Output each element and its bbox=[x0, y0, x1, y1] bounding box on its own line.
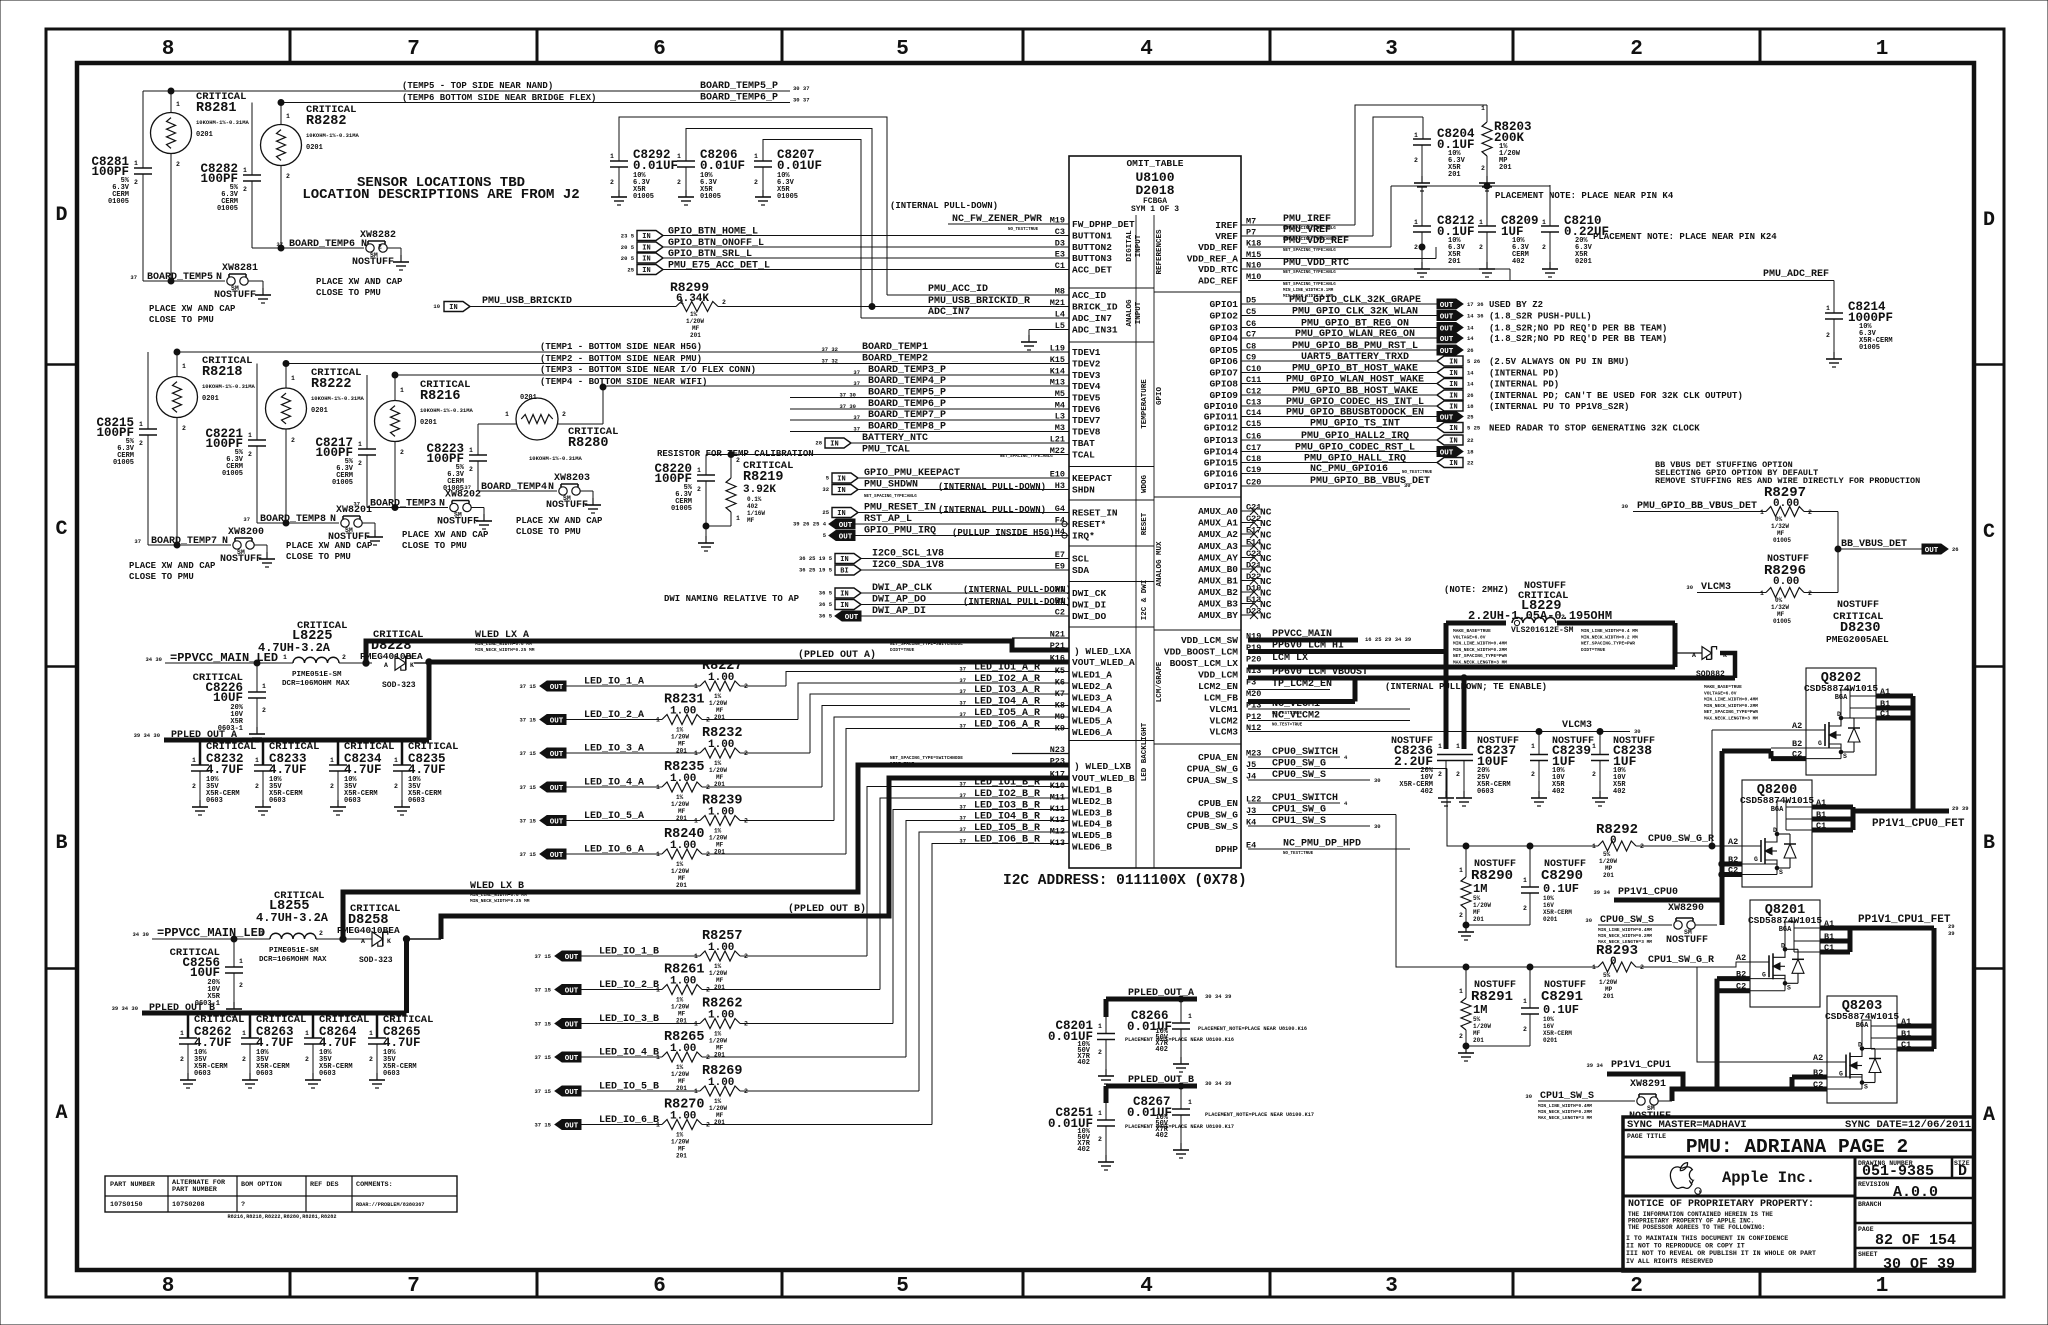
svg-text:OUT: OUT bbox=[550, 785, 564, 793]
ground for C8206 bbox=[678, 190, 694, 205]
wire PMU_GPIO_BT_HOST_WAKE bbox=[1241, 372, 1437, 374]
svg-text:39 34 30: 39 34 30 bbox=[112, 1005, 138, 1012]
svg-text:LED_IO6_A_R: LED_IO6_A_R bbox=[974, 720, 1040, 731]
svg-text:PIME051E-SM: PIME051E-SM bbox=[269, 947, 319, 955]
svg-text:) WLED_LXA: ) WLED_LXA bbox=[1074, 646, 1131, 657]
svg-text:1: 1 bbox=[697, 467, 701, 474]
svg-text:TDEV5: TDEV5 bbox=[1072, 393, 1101, 404]
svg-text:DWI_AP_CLK: DWI_AP_CLK bbox=[872, 583, 932, 594]
svg-text:2.2UH-1.05A-0.195OHM: 2.2UH-1.05A-0.195OHM bbox=[1468, 609, 1612, 623]
svg-text:OUT: OUT bbox=[1440, 449, 1454, 457]
svg-text:4.7UH-3.2A: 4.7UH-3.2A bbox=[256, 911, 329, 925]
bus LCM_FB M20 riser from VBOOST bbox=[1353, 678, 1358, 702]
wire LED_IO_3_B to IC bbox=[740, 1023, 893, 1025]
svg-text:XW8200: XW8200 bbox=[228, 527, 264, 538]
wire diode D8228 cathode junction bbox=[414, 662, 429, 664]
svg-text:TDEV7: TDEV7 bbox=[1072, 415, 1101, 426]
svg-text:1M: 1M bbox=[1473, 882, 1487, 896]
svg-text:DPHP: DPHP bbox=[1215, 844, 1238, 855]
svg-text:NET_SPACING_TYPE=SWITCHNODE: NET_SPACING_TYPE=SWITCHNODE bbox=[890, 755, 963, 761]
svg-text:A: A bbox=[1692, 652, 1696, 659]
svg-text:XW8290: XW8290 bbox=[1668, 903, 1704, 914]
svg-text:30: 30 bbox=[1404, 482, 1411, 489]
svg-text:LED_IO_4_B: LED_IO_4_B bbox=[599, 1048, 659, 1059]
svg-text:39: 39 bbox=[1948, 930, 1955, 937]
wire riser LED_IO_5_B bbox=[919, 832, 1069, 1091]
title block outline bbox=[1623, 1117, 1974, 1271]
svg-text:(TEMP6 BOTTOM SIDE NEAR BRIDGE: (TEMP6 BOTTOM SIDE NEAR BRIDGE FLEX) bbox=[402, 93, 596, 103]
svg-text:NC: NC bbox=[1260, 518, 1272, 529]
svg-text:4.7UF: 4.7UF bbox=[408, 763, 446, 777]
jumper XW8203 bbox=[559, 484, 580, 495]
svg-text:PP6V0 LCM VBOOST: PP6V0 LCM VBOOST bbox=[1272, 667, 1368, 678]
svg-text:PART NUMBER: PART NUMBER bbox=[172, 1186, 218, 1194]
svg-text:IN: IN bbox=[642, 233, 650, 241]
svg-text:WLED5_B: WLED5_B bbox=[1072, 830, 1112, 841]
svg-text:MF: MF bbox=[716, 842, 724, 849]
ground for C8220 bbox=[698, 536, 714, 551]
svg-text:37: 37 bbox=[276, 241, 283, 248]
svg-text:1%: 1% bbox=[714, 760, 722, 767]
svg-text:37: 37 bbox=[959, 677, 966, 684]
svg-text:R8280: R8280 bbox=[568, 436, 609, 451]
bus PP6V0_LCM_VBOOST bbox=[1248, 676, 1735, 681]
capacitor C8212 bbox=[1413, 226, 1431, 262]
svg-text:GPIO4: GPIO4 bbox=[1209, 333, 1238, 344]
svg-text:LED_IO1_A_R: LED_IO1_A_R bbox=[974, 663, 1040, 674]
svg-text:NC: NC bbox=[1260, 576, 1272, 587]
svg-text:DIGITAL: DIGITAL bbox=[1126, 230, 1134, 262]
svg-text:ACC_ID: ACC_ID bbox=[1072, 290, 1107, 301]
svg-text:1: 1 bbox=[1188, 1099, 1192, 1106]
svg-text:PMU_E75_ACC_DET_L: PMU_E75_ACC_DET_L bbox=[668, 261, 770, 272]
svg-text:MF: MF bbox=[1777, 530, 1785, 537]
svg-text:ANALOG MUX: ANALOG MUX bbox=[1156, 541, 1164, 587]
ground for C8214 bbox=[1826, 352, 1842, 367]
svg-text:AMUX_A1: AMUX_A1 bbox=[1198, 518, 1238, 529]
svg-text:AMUX_AY: AMUX_AY bbox=[1198, 553, 1238, 564]
inversion bubble IRQ* bbox=[1062, 533, 1067, 538]
svg-text:37: 37 bbox=[959, 838, 966, 845]
svg-text:PLACE XW AND CAP: PLACE XW AND CAP bbox=[516, 516, 603, 526]
svg-text:(INTERNAL PULL-DOWN): (INTERNAL PULL-DOWN) bbox=[938, 482, 1046, 492]
svg-text:2: 2 bbox=[248, 451, 252, 458]
svg-text:1%: 1% bbox=[676, 1064, 684, 1071]
svg-text:PLACE XW AND CAP: PLACE XW AND CAP bbox=[286, 541, 373, 551]
wire LED_IO_1_A to IC bbox=[740, 685, 786, 687]
svg-text:AMUX_B3: AMUX_B3 bbox=[1198, 599, 1238, 610]
svg-text:14: 14 bbox=[1467, 381, 1474, 388]
svg-text:LED_IO_2_B: LED_IO_2_B bbox=[599, 980, 659, 991]
wire LED_IO_5_B to IC bbox=[740, 1090, 919, 1092]
svg-text:0.00: 0.00 bbox=[1773, 576, 1799, 588]
svg-text:LED_IO4_B_R: LED_IO4_B_R bbox=[974, 812, 1040, 823]
svg-text:VLCM3: VLCM3 bbox=[1562, 720, 1592, 731]
svg-text:1: 1 bbox=[305, 1030, 309, 1037]
svg-text:OUT: OUT bbox=[565, 1089, 579, 1097]
wire PMU_VREF bbox=[1241, 235, 1373, 237]
svg-text:37: 37 bbox=[959, 792, 966, 799]
svg-text:) WLED_LXB: ) WLED_LXB bbox=[1074, 761, 1131, 772]
ground for C8292 bbox=[611, 190, 627, 205]
svg-text:01005: 01005 bbox=[217, 205, 238, 213]
svg-text:WLED6_A: WLED6_A bbox=[1072, 727, 1112, 738]
svg-text:10UF: 10UF bbox=[190, 966, 220, 980]
svg-text:(INTERNAL PULL-DOWN): (INTERNAL PULL-DOWN) bbox=[938, 505, 1046, 515]
capacitor C8256 bbox=[231, 936, 237, 942]
svg-text:OUT: OUT bbox=[565, 1021, 579, 1029]
svg-text:0: 0 bbox=[1610, 835, 1617, 847]
svg-text:IN: IN bbox=[1449, 393, 1457, 401]
wire CPU0_SW_S bbox=[1248, 779, 1370, 781]
svg-text:201: 201 bbox=[676, 1153, 687, 1160]
svg-text:BOARD_TEMP8: BOARD_TEMP8 bbox=[260, 514, 326, 525]
svg-text:1.00: 1.00 bbox=[708, 672, 734, 684]
svg-text:AMUX_BY: AMUX_BY bbox=[1198, 610, 1238, 621]
wire NC_VLCM1 bbox=[1248, 708, 1410, 710]
svg-text:5%: 5% bbox=[1603, 972, 1611, 979]
svg-text:PPLED_OUT_B: PPLED_OUT_B bbox=[1128, 1075, 1194, 1086]
svg-text:201: 201 bbox=[1499, 164, 1512, 172]
svg-text:MF: MF bbox=[716, 1045, 724, 1052]
svg-text:OUT: OUT bbox=[1440, 414, 1454, 422]
svg-text:37 32: 37 32 bbox=[821, 358, 838, 365]
capacitor C8214 bbox=[1825, 313, 1843, 352]
svg-text:2: 2 bbox=[239, 982, 243, 989]
svg-text:A: A bbox=[384, 662, 388, 669]
svg-text:PP6V0 LCM HI: PP6V0 LCM HI bbox=[1272, 641, 1344, 652]
svg-text:OUT: OUT bbox=[845, 614, 859, 622]
svg-text:0603: 0603 bbox=[383, 1070, 400, 1078]
svg-text:VOUT_WLED_A: VOUT_WLED_A bbox=[1072, 657, 1135, 668]
U8100 internal dividers bbox=[1135, 215, 1137, 868]
svg-text:MF: MF bbox=[692, 325, 700, 332]
capacitor C8223 bbox=[477, 424, 479, 455]
svg-text:P20: P20 bbox=[1246, 655, 1261, 665]
svg-text:LED_IO_5_A: LED_IO_5_A bbox=[584, 811, 644, 822]
svg-text:BOARD_TEMP6_P: BOARD_TEMP6_P bbox=[700, 93, 778, 104]
wire NC_PMU_GPIO16 bbox=[1241, 473, 1400, 475]
thick B2 C2 feeds Q8202 bbox=[1722, 749, 1771, 754]
svg-text:CPUB_EN: CPUB_EN bbox=[1198, 798, 1238, 809]
svg-text:1%: 1% bbox=[714, 693, 722, 700]
svg-text:IN: IN bbox=[642, 256, 650, 264]
svg-text:37 30: 37 30 bbox=[839, 403, 856, 410]
svg-text:AMUX_B0: AMUX_B0 bbox=[1198, 564, 1238, 575]
svg-text:MIN_NECK_WIDTH=0.2MM: MIN_NECK_WIDTH=0.2MM bbox=[1453, 647, 1507, 653]
svg-text:10%: 10% bbox=[1543, 1016, 1554, 1023]
svg-text:01005: 01005 bbox=[1773, 618, 1791, 625]
svg-text:201: 201 bbox=[1473, 916, 1484, 923]
svg-text:36 25 19 5: 36 25 19 5 bbox=[799, 555, 833, 562]
capacitor C8251 bbox=[1105, 1103, 1107, 1120]
svg-text:14: 14 bbox=[1467, 335, 1474, 342]
ground for C8209 bbox=[1479, 262, 1495, 277]
svg-text:0201: 0201 bbox=[306, 144, 323, 152]
capacitor C8236 nostuff bbox=[1437, 755, 1455, 792]
svg-text:OUT: OUT bbox=[1925, 547, 1939, 555]
wire diode D8258 cathode down bbox=[404, 939, 409, 1013]
svg-text:2: 2 bbox=[754, 179, 758, 186]
svg-text:DWI_DI: DWI_DI bbox=[1072, 600, 1106, 611]
wire riser LED_IO_1_B bbox=[867, 787, 1069, 957]
wire VREF route to C8204 bbox=[1373, 117, 1423, 236]
svg-text:BOARD_TEMP6_P: BOARD_TEMP6_P bbox=[868, 399, 946, 410]
svg-text:5 26: 5 26 bbox=[1467, 358, 1480, 365]
svg-text:PMU_VDD_RTC: PMU_VDD_RTC bbox=[1283, 258, 1349, 269]
svg-text:1: 1 bbox=[1481, 105, 1485, 112]
thick stubs Q8202 A1 B1 C1 bbox=[1876, 694, 1913, 699]
ground for C8262 bbox=[180, 1073, 196, 1088]
svg-text:26: 26 bbox=[1467, 347, 1474, 354]
svg-text:2: 2 bbox=[243, 186, 247, 193]
svg-text:IREF: IREF bbox=[1215, 220, 1238, 231]
svg-text:10KOHM-1%-0.31MA: 10KOHM-1%-0.31MA bbox=[306, 132, 360, 139]
svg-text:PLACEMENT_NOTE=PLACE NEAR U810: PLACEMENT_NOTE=PLACE NEAR U8100.K16 bbox=[1198, 1026, 1307, 1032]
bus PPLED_OUT_A cap bank bbox=[164, 738, 429, 743]
svg-text:VLCM3: VLCM3 bbox=[1701, 582, 1731, 593]
column tick marks bottom band bbox=[289, 1270, 292, 1297]
svg-text:37 15: 37 15 bbox=[519, 784, 536, 791]
svg-text:37: 37 bbox=[959, 700, 966, 707]
svg-text:4.7UF: 4.7UF bbox=[256, 1036, 294, 1050]
svg-text:4.7UH-3.2A: 4.7UH-3.2A bbox=[258, 641, 331, 655]
capacitor C8264 bbox=[312, 1013, 315, 1038]
svg-text:AMUX_A0: AMUX_A0 bbox=[1198, 506, 1238, 517]
svg-text:RDAR://PROBLEM/8380367: RDAR://PROBLEM/8380367 bbox=[356, 1202, 425, 1208]
wire TEMP6 top net bbox=[281, 102, 790, 104]
svg-text:R8282: R8282 bbox=[306, 114, 347, 129]
svg-text:MAX_NECK_LENGTH=3 MM: MAX_NECK_LENGTH=3 MM bbox=[1538, 1115, 1592, 1121]
svg-text:1: 1 bbox=[610, 153, 614, 160]
svg-text:0201: 0201 bbox=[1543, 1037, 1558, 1044]
svg-text:R8281: R8281 bbox=[196, 101, 237, 116]
wire BOARD_TEMP6 N bbox=[252, 247, 364, 249]
svg-text:LED_IO_4_A: LED_IO_4_A bbox=[584, 778, 644, 789]
svg-text:IN: IN bbox=[1449, 359, 1457, 367]
part number table bbox=[105, 1176, 457, 1212]
svg-text:1: 1 bbox=[1760, 590, 1764, 597]
svg-text:1/20W: 1/20W bbox=[671, 868, 689, 875]
ground for XW8203 bbox=[585, 498, 601, 513]
svg-text:IV ALL RIGHTS RESERVED: IV ALL RIGHTS RESERVED bbox=[1626, 1258, 1713, 1265]
svg-text:0201: 0201 bbox=[311, 407, 328, 415]
svg-text:PMU_GPIO_WLAN_REG_ON: PMU_GPIO_WLAN_REG_ON bbox=[1295, 329, 1415, 340]
wire UART5_BATTERY_TRXD bbox=[1241, 360, 1437, 362]
wire ADC_IN31 ground bbox=[1029, 329, 1069, 331]
svg-text:NC_VLCM2: NC_VLCM2 bbox=[1272, 711, 1320, 722]
svg-text:OUT: OUT bbox=[550, 852, 564, 860]
svg-text:LED_IO_6_B: LED_IO_6_B bbox=[599, 1115, 659, 1126]
svg-text:INPUT: INPUT bbox=[1135, 301, 1143, 324]
capacitor C8233 bbox=[262, 740, 265, 765]
svg-text:OUT: OUT bbox=[1440, 313, 1454, 321]
svg-text:30: 30 bbox=[1686, 584, 1693, 591]
svg-text:6: 6 bbox=[653, 38, 666, 61]
svg-text:30: 30 bbox=[1525, 1093, 1532, 1100]
svg-text:R8219: R8219 bbox=[743, 470, 784, 485]
svg-text:7: 7 bbox=[407, 38, 420, 61]
svg-text:201: 201 bbox=[1448, 258, 1461, 266]
svg-text:BOARD_TEMP4: BOARD_TEMP4 bbox=[481, 482, 547, 493]
svg-text:1: 1 bbox=[1592, 843, 1596, 850]
svg-text:GPIO5: GPIO5 bbox=[1209, 345, 1238, 356]
wire PMU_GPIO_BB_VBUS_DET bbox=[1241, 485, 1400, 487]
svg-text:5%: 5% bbox=[1603, 851, 1611, 858]
wire Q8201 gate A2 from R8293 bbox=[1697, 962, 1750, 967]
svg-text:OUT: OUT bbox=[839, 533, 853, 541]
svg-text:DWI_CK: DWI_CK bbox=[1072, 588, 1107, 599]
svg-text:2: 2 bbox=[1808, 509, 1812, 516]
ground for C8234 bbox=[330, 800, 346, 815]
svg-text:GPIO16: GPIO16 bbox=[1204, 469, 1239, 480]
svg-text:1: 1 bbox=[694, 750, 698, 757]
svg-text:NOSTUFF: NOSTUFF bbox=[546, 500, 588, 511]
svg-text:2: 2 bbox=[291, 437, 295, 444]
svg-text:M20: M20 bbox=[1246, 689, 1261, 699]
wire BOARD_TEMP2 bbox=[286, 363, 1069, 365]
ground for C8201 bbox=[1098, 1069, 1114, 1084]
svg-text:PMU_GPIO_BB_PMU_RST_L: PMU_GPIO_BB_PMU_RST_L bbox=[1292, 341, 1418, 352]
svg-text:5: 5 bbox=[896, 38, 909, 61]
wire LED_IO_4_A to IC bbox=[702, 786, 822, 788]
capacitor C8263 bbox=[249, 1013, 252, 1038]
svg-text:PMU_GPIO_BT_HOST_WAKE: PMU_GPIO_BT_HOST_WAKE bbox=[1292, 364, 1418, 375]
svg-text:1: 1 bbox=[134, 160, 138, 167]
svg-text:AMUX_B2: AMUX_B2 bbox=[1198, 587, 1238, 598]
svg-text:MF: MF bbox=[678, 1078, 686, 1085]
svg-text:(TEMP3 - BOTTOM SIDE NEAR I/O: (TEMP3 - BOTTOM SIDE NEAR I/O FLEX CONN) bbox=[540, 365, 756, 375]
wire NC_VLCM2 bbox=[1248, 720, 1410, 722]
capacitor C8221 bbox=[256, 364, 258, 441]
svg-text:(INTERNAL PD): (INTERNAL PD) bbox=[1489, 369, 1559, 379]
svg-text:(TEMP5 - TOP SIDE NEAR NAND): (TEMP5 - TOP SIDE NEAR NAND) bbox=[402, 81, 553, 91]
svg-text:GPIO7: GPIO7 bbox=[1209, 368, 1238, 379]
svg-text:37: 37 bbox=[353, 501, 360, 508]
wire PMU_GPIO_BB_PMU_RST_L bbox=[1241, 349, 1437, 351]
svg-text:PMEG4010BEA: PMEG4010BEA bbox=[360, 651, 423, 662]
thick feed C8236 from PP6V0_LCM_HI bbox=[1444, 652, 1449, 750]
svg-text:MP: MP bbox=[1605, 986, 1613, 993]
svg-text:0.1UF: 0.1UF bbox=[1543, 1003, 1579, 1017]
svg-text:1: 1 bbox=[400, 387, 404, 394]
svg-text:402: 402 bbox=[1512, 258, 1525, 266]
svg-text:1: 1 bbox=[1531, 743, 1535, 750]
svg-text:30: 30 bbox=[1621, 503, 1628, 510]
title block drawing number cell bbox=[1855, 1177, 1974, 1180]
svg-text:01005: 01005 bbox=[108, 198, 129, 206]
svg-text:10: 10 bbox=[433, 303, 440, 310]
svg-text:R8293: R8293 bbox=[1596, 943, 1638, 959]
svg-text:NO_TEST=TRUE: NO_TEST=TRUE bbox=[1272, 724, 1303, 728]
svg-text:MIN_LINE_WIDTH=0.4 MM: MIN_LINE_WIDTH=0.4 MM bbox=[1581, 628, 1638, 634]
svg-text:2: 2 bbox=[1459, 1033, 1463, 1040]
svg-text:1: 1 bbox=[283, 654, 287, 661]
svg-text:OUT: OUT bbox=[565, 954, 579, 962]
svg-text:14: 14 bbox=[1467, 370, 1474, 377]
ground for C8237 bbox=[1456, 791, 1472, 806]
svg-text:A: A bbox=[55, 1102, 67, 1125]
svg-text:1: 1 bbox=[1500, 614, 1504, 621]
wire PMU_GPIO_HALL_IRQ bbox=[1241, 462, 1437, 464]
svg-text:CLOSE TO PMU: CLOSE TO PMU bbox=[129, 572, 194, 582]
svg-text:BOARD_TEMP7_P: BOARD_TEMP7_P bbox=[868, 410, 946, 421]
svg-text:18: 18 bbox=[1467, 449, 1474, 456]
svg-text:PLACEMENT_NOTE=PLACE NEAR U810: PLACEMENT_NOTE=PLACE NEAR U8100.K17 bbox=[1205, 1112, 1314, 1118]
svg-text:1: 1 bbox=[180, 1030, 184, 1037]
svg-text:I2C ADDRESS: 0111100X (0X78): I2C ADDRESS: 0111100X (0X78) bbox=[1003, 873, 1247, 889]
capacitor C8232 bbox=[199, 740, 202, 765]
svg-text:IRQ*: IRQ* bbox=[1072, 531, 1095, 542]
transistor Q8202 bbox=[1806, 668, 1876, 775]
svg-text:37 15: 37 15 bbox=[534, 1088, 551, 1095]
svg-text:PMU_GPIO_HALL2_IRQ: PMU_GPIO_HALL2_IRQ bbox=[1301, 431, 1409, 442]
svg-text:I TO MAINTAIN THIS DOCUMENT IN: I TO MAINTAIN THIS DOCUMENT IN CONFIDENC… bbox=[1626, 1235, 1788, 1242]
svg-text:CLOSE TO PMU: CLOSE TO PMU bbox=[516, 527, 581, 537]
svg-text:MF: MF bbox=[716, 1112, 724, 1119]
capacitor C8234 bbox=[337, 740, 340, 765]
svg-text:I2C0_SDA_1V8: I2C0_SDA_1V8 bbox=[872, 560, 944, 571]
svg-text:MIN_NECK_WIDTH=0.2 MM: MIN_NECK_WIDTH=0.2 MM bbox=[1581, 634, 1638, 640]
svg-text:LED_IO1_B_R: LED_IO1_B_R bbox=[974, 778, 1040, 789]
transistor Q8200 bbox=[1742, 780, 1812, 887]
svg-text:0.01UF: 0.01UF bbox=[700, 159, 745, 173]
svg-text:PLACE XW AND CAP: PLACE XW AND CAP bbox=[129, 561, 216, 571]
svg-text:VREF: VREF bbox=[1215, 231, 1238, 242]
svg-text:37 15: 37 15 bbox=[519, 750, 536, 757]
svg-text:OUT: OUT bbox=[565, 1122, 579, 1130]
svg-text:1.00: 1.00 bbox=[670, 706, 696, 718]
svg-text:PMU_VDD_REF: PMU_VDD_REF bbox=[1283, 236, 1349, 247]
thick feed C8237 from PP6V0_LCM_VBOOST bbox=[1462, 678, 1467, 749]
svg-text:8: 8 bbox=[162, 1275, 175, 1298]
svg-text:1: 1 bbox=[1098, 1023, 1102, 1030]
svg-text:CLOSE TO PMU: CLOSE TO PMU bbox=[402, 541, 467, 551]
svg-text:INPUT: INPUT bbox=[1135, 234, 1143, 257]
svg-text:K: K bbox=[410, 662, 414, 669]
svg-text:REF DES: REF DES bbox=[310, 1181, 339, 1189]
thermistor R8281 bbox=[170, 91, 172, 113]
svg-text:PP1V1_CPU0_FET: PP1V1_CPU0_FET bbox=[1872, 818, 1965, 830]
svg-text:201: 201 bbox=[1473, 1037, 1484, 1044]
svg-text:IN: IN bbox=[830, 441, 838, 449]
wire BOARD_TEMP4 N bbox=[478, 490, 557, 492]
wire LED_IO_5_A to IC bbox=[740, 820, 834, 822]
svg-text:2: 2 bbox=[139, 440, 143, 447]
svg-text:0201: 0201 bbox=[420, 419, 437, 427]
svg-text:S: S bbox=[1787, 984, 1791, 991]
svg-text:WLED6_B: WLED6_B bbox=[1072, 842, 1112, 853]
capacitor C8265 bbox=[376, 1013, 379, 1038]
svg-text:0603: 0603 bbox=[408, 797, 425, 805]
svg-text:3.92K: 3.92K bbox=[743, 484, 776, 496]
svg-text:USED BY Z2: USED BY Z2 bbox=[1489, 300, 1543, 310]
svg-text:1/20W: 1/20W bbox=[1473, 1023, 1491, 1030]
svg-text:37 15: 37 15 bbox=[534, 1054, 551, 1061]
capacitor C8237 nostuff bbox=[1455, 755, 1473, 792]
svg-text:1: 1 bbox=[677, 153, 681, 160]
svg-text:(1.8_S2R;NO PD REQ'D PER BB TE: (1.8_S2R;NO PD REQ'D PER BB TEAM) bbox=[1489, 324, 1667, 334]
resistor R8219 bbox=[730, 455, 732, 479]
svg-text:402: 402 bbox=[1077, 1146, 1090, 1154]
svg-text:THE POSESSOR AGREES TO THE FOL: THE POSESSOR AGREES TO THE FOLLOWING: bbox=[1628, 1224, 1765, 1231]
svg-text:30 37: 30 37 bbox=[793, 85, 810, 92]
svg-text:(2.5V ALWAYS ON PU IN BMU): (2.5V ALWAYS ON PU IN BMU) bbox=[1489, 357, 1629, 367]
svg-text:2: 2 bbox=[176, 161, 180, 168]
svg-text:20 5: 20 5 bbox=[621, 255, 635, 262]
wire CPU1_SW_S bbox=[1248, 825, 1370, 827]
svg-text:PMU_TCAL: PMU_TCAL bbox=[862, 445, 910, 456]
